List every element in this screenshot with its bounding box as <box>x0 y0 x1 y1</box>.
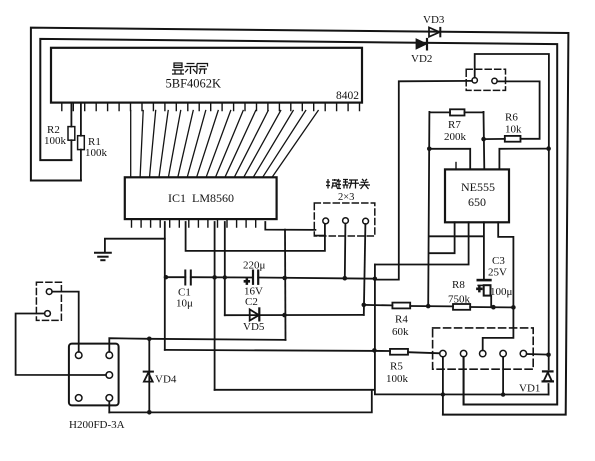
svg-text:+: + <box>477 285 483 296</box>
op-amp U2 NE555 box <box>445 169 509 222</box>
wire IC1 pin to C1/R5 (long left vertical) <box>164 222 166 350</box>
wire S3 bottom circle left-down to relay mid <box>16 314 106 376</box>
wire keypad c2 down to wire-277 <box>344 224 347 279</box>
diode VD3 <box>429 27 440 36</box>
wire C1/C2 rail (wire-277) <box>165 277 375 279</box>
diode VD4 on vertical <box>144 339 153 413</box>
svg-text:100k: 100k <box>44 135 67 147</box>
resistor R4 <box>392 303 410 309</box>
svg-text:2×3: 2×3 <box>338 192 354 203</box>
wire IC1 pin to VD5 left <box>224 222 226 315</box>
wire R4-R8 rail <box>364 305 514 308</box>
wire S2 c1 down to outer bottom <box>442 357 444 415</box>
svg-text:VD5: VD5 <box>243 321 265 333</box>
wire top-switch left circle to x398 vertical down <box>375 81 472 280</box>
capacitor C1 <box>185 271 191 285</box>
wire R7 right vertical to NE555 <box>483 112 486 169</box>
switch S2 circles <box>440 350 527 356</box>
wire S1 right circle to R6 right <box>497 81 539 138</box>
wire fan: display pins to IC1 top pins <box>131 111 319 178</box>
wire NE555 pin2 long rail <box>375 222 469 264</box>
svg-text:25V: 25V <box>488 267 507 279</box>
svg-text:650: 650 <box>468 195 486 209</box>
svg-text:10k: 10k <box>505 124 522 136</box>
wire S2 c5 to VD1 line <box>527 353 549 356</box>
wire third loop: S1 left circle up, right, down right side to VD1 <box>475 54 549 395</box>
diode VD2 <box>416 39 427 49</box>
svg-text:220μ: 220μ <box>243 260 266 272</box>
svg-text:10μ: 10μ <box>176 298 193 310</box>
wire IC1 last pin right route down (x=285 vertical) <box>265 222 315 230</box>
wire S3 top circle to relay TL <box>52 292 78 352</box>
wire outer loop: R1 bottom, left border, top border, right border, bottom border <box>31 28 569 415</box>
wire keypad c3 down to R4 junction and VD5 <box>364 224 366 315</box>
relay terminals <box>75 352 112 401</box>
wire bottom-left rail from relay with jog <box>109 390 372 412</box>
resistor R8 <box>453 304 470 310</box>
svg-text:8402: 8402 <box>336 90 359 102</box>
svg-text:100μ: 100μ <box>490 286 513 298</box>
wire x513 down to bottom switch c3 <box>483 307 514 350</box>
wire U-bottom and thin bottom rail <box>215 265 549 395</box>
label 显示屏 (pseudo-glyphs) <box>172 63 208 74</box>
svg-text:H200FD-3A: H200FD-3A <box>69 419 125 431</box>
resistor R5 <box>390 349 408 355</box>
switch S1 circles <box>472 78 477 83</box>
svg-text:C2: C2 <box>245 296 258 308</box>
wire relay BR down to bottom rail <box>108 401 110 412</box>
transformer/relay H200FD-3A box <box>69 344 119 406</box>
capacitor C2 <box>253 271 258 284</box>
wire S2 c2 down to second loop bottom <box>463 357 465 405</box>
wire relay coil rail (y=339) to x285 vertical <box>109 338 285 352</box>
svg-text:100k: 100k <box>386 373 409 385</box>
switch S3 left dashed box <box>36 282 61 320</box>
keypad K dashed box 2x3 <box>314 203 375 236</box>
resistor R7 <box>429 109 483 115</box>
NE555 top stub pin <box>455 163 457 170</box>
svg-text:R5: R5 <box>390 361 403 373</box>
svg-text:NE555: NE555 <box>461 180 495 194</box>
svg-text:VD4: VD4 <box>155 374 177 386</box>
capacitor C3 electrolytic <box>478 280 491 307</box>
svg-text:750k: 750k <box>448 294 471 306</box>
IC1 bottom pin stubs <box>132 219 256 227</box>
svg-text:C3: C3 <box>492 255 505 267</box>
diode VD1 <box>543 371 553 381</box>
wire NE555 pin down-left seg <box>430 222 455 253</box>
svg-text:5BF4062K: 5BF4062K <box>166 77 222 91</box>
svg-text:VD1: VD1 <box>519 383 540 395</box>
svg-text:IC1 LM8560: IC1 LM8560 <box>168 191 234 205</box>
switch S3 circles <box>46 289 52 295</box>
svg-text:60k: 60k <box>392 326 409 338</box>
resistor R6 <box>484 136 521 142</box>
keypad circles <box>323 218 369 224</box>
svg-text:200k: 200k <box>444 131 467 143</box>
wire S2 c4 down to thin rail <box>502 357 504 395</box>
wire IC1 ground pin to ground <box>105 239 165 252</box>
ground <box>95 253 111 260</box>
op-amp U1 IC1 LM8560 box <box>125 177 277 219</box>
wire NE555 C3 pin and wire-236 <box>429 222 484 280</box>
wire second loop: R2 bottom, left, top, right, bottom to switch S c2 <box>40 39 557 405</box>
wire NE555 pin4 to x513 vertical <box>498 222 513 307</box>
switch S1 top-right dashed box <box>466 69 505 90</box>
wire keypad c1 U-bottom seg <box>316 235 325 237</box>
svg-text:R4: R4 <box>395 314 408 326</box>
diode VD5 <box>225 308 364 320</box>
resistor R1 <box>78 103 85 181</box>
switch S2 bottom dashed box <box>433 328 534 369</box>
svg-text:R6: R6 <box>505 112 518 124</box>
svg-text:VD3: VD3 <box>423 14 445 26</box>
wire R7 left vertical and wire-149 <box>428 112 470 306</box>
display module 5BF4062K <box>51 48 362 103</box>
svg-text:100k: 100k <box>85 147 108 159</box>
svg-text:R8: R8 <box>452 279 465 291</box>
wire R5 rail <box>165 350 440 353</box>
svg-text:VD2: VD2 <box>411 53 432 65</box>
resistor R2 <box>68 103 75 160</box>
wire IC1 pin long vertical to U-bottom <box>214 222 216 390</box>
wire from x548 junction to NE555 top pin <box>499 149 548 170</box>
wire IC1 pin to keypad K c1 (wire-250) <box>186 222 325 251</box>
svg-text:R7: R7 <box>448 119 461 131</box>
label 按键开关 (pseudo-glyphs) <box>326 179 370 189</box>
display pins (ticks) <box>62 103 360 111</box>
